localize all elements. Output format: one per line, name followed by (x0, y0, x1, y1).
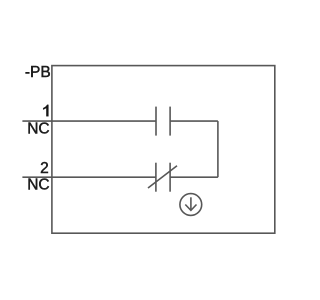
svg-text:NC: NC (27, 120, 49, 137)
svg-text:NC: NC (27, 176, 49, 193)
svg-text:2: 2 (40, 160, 49, 177)
svg-text:-PB: -PB (25, 64, 51, 81)
